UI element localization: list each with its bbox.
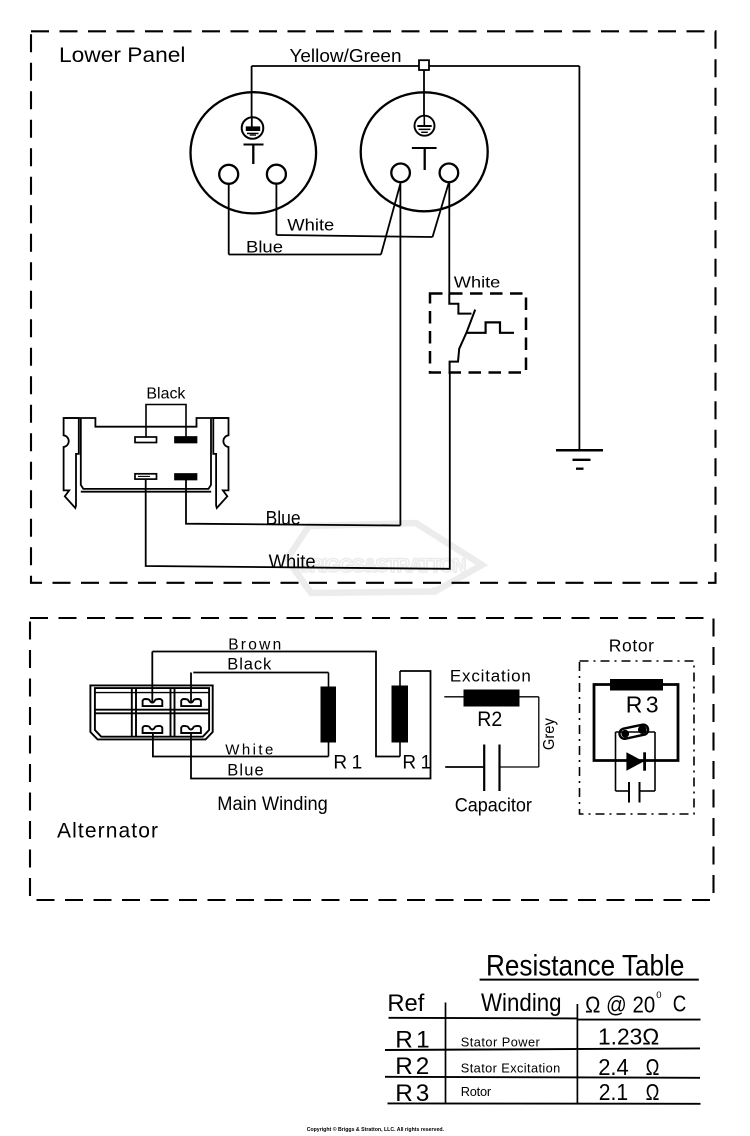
svg-text:White: White (225, 742, 273, 759)
svg-text:White: White (454, 275, 501, 292)
wire Blue: J1 left pin drop (228, 184, 230, 255)
CN1 pin 2 (top-right slot) (175, 437, 197, 443)
svg-text:Black: Black (146, 386, 186, 403)
svg-text:1.23Ω: 1.23Ω (598, 1023, 659, 1049)
J1 ground pin (242, 117, 264, 139)
breaker S1 top lead (449, 294, 471, 314)
connector CN2 (alternator 6-cavity) body (90, 685, 212, 739)
wire Blue: long drop from J2 left pin (399, 182, 401, 526)
J1 polarity key mark (244, 145, 264, 165)
svg-text:Stator Power: Stator Power (461, 1034, 541, 1049)
wire White: CN2 terminal C to R1 (153, 733, 329, 757)
rectifier module box (616, 732, 656, 791)
svg-text:Main Winding: Main Winding (217, 794, 327, 815)
wire Brown: CN2 terminal A riser (151, 652, 153, 702)
table bottom rule (388, 1102, 701, 1104)
J1 line pin (left) (219, 165, 238, 184)
CN2 terminal B (row1 col3) (181, 699, 201, 706)
wire Blue: diagonal to J2 left pin (381, 184, 400, 255)
svg-text:Copyright © Briggs & Stratton,: Copyright © Briggs & Stratton, LLC. All … (307, 1126, 445, 1133)
svg-text:2.1: 2.1 (599, 1079, 628, 1105)
svg-text:R3: R3 (395, 1080, 429, 1107)
svg-text:R2: R2 (477, 707, 502, 731)
varistor on module top edge (619, 724, 649, 740)
junction terminal square on Yellow/Green bus (419, 60, 429, 70)
svg-text:Grey: Grey (541, 718, 558, 750)
wire White: breaker to panel connector (146, 372, 450, 568)
title underline (480, 979, 699, 981)
svg-text:R1: R1 (333, 753, 362, 774)
CN2 terminal C (row2 col2) (143, 726, 163, 733)
receptacle outlet J2 (right) body (361, 92, 488, 211)
svg-text:Rotor: Rotor (609, 636, 654, 656)
value 2.1 ohm (599, 1079, 660, 1105)
svg-text:Winding: Winding (481, 989, 562, 1017)
wire White: J1 right pin drop (275, 184, 277, 235)
svg-text:Blue: Blue (227, 761, 263, 779)
CN1 pin 4 (bottom-right slot) (175, 474, 197, 480)
svg-text:Resistance Table: Resistance Table (486, 950, 684, 983)
wire Brown: top run (152, 652, 400, 757)
R1 bottom lead (328, 743, 330, 757)
receptacle outlet J1 (left) body (191, 92, 317, 213)
J2 line pin (left) (391, 164, 410, 183)
wire White: diagonal to J2 right pin (433, 182, 450, 237)
C1 right lead (500, 766, 539, 768)
R2 right lead (520, 696, 539, 698)
wire rotor loop (594, 685, 678, 761)
R2 left lead (444, 696, 463, 698)
breaker S1 fixed contact (466, 322, 514, 332)
chassis ground symbol (556, 450, 603, 468)
svg-text:Lower Panel: Lower Panel (59, 43, 186, 67)
watermark Briggs & Stratton logo (287, 523, 482, 594)
svg-text:Ω @ 20: Ω @ 20 (585, 991, 655, 1017)
alternator enclosure (dashed boundary) (30, 618, 714, 900)
svg-text:Yellow/Green: Yellow/Green (290, 46, 402, 66)
R1 right bottom lead (399, 743, 401, 757)
svg-text:Ω: Ω (646, 1079, 660, 1105)
table column rule 1 (445, 1003, 447, 1103)
wire White: horizontal run (276, 235, 432, 237)
CN2 terminal A (row1 col2) (143, 699, 163, 706)
wire Yellow/Green: drop to J2 ground (423, 70, 425, 116)
connector CN1 (lower panel 4-pin) body (64, 418, 229, 508)
wire Blue: horizontal run (229, 254, 381, 256)
wire Yellow/Green: J1 ground riser (251, 66, 253, 117)
resistor R1 (stator power winding, left) (321, 687, 337, 743)
svg-text:2.4: 2.4 (598, 1054, 629, 1080)
capacitor C2 plate left (628, 782, 630, 803)
svg-text:Capacitor: Capacitor (455, 796, 533, 817)
table column rule 2 (576, 1004, 578, 1104)
svg-text:R3: R3 (626, 692, 659, 718)
svg-text:White: White (287, 216, 334, 235)
value 2.4 ohm (598, 1054, 659, 1080)
diode D1 (626, 752, 644, 770)
svg-text:Excitation: Excitation (450, 667, 531, 686)
wire Grey: R2 to capacitor (538, 697, 540, 767)
svg-text:Stator Excitation: Stator Excitation (461, 1061, 561, 1076)
svg-text:R1: R1 (395, 1027, 429, 1054)
svg-text:Rotor: Rotor (461, 1084, 492, 1099)
R1 right top lead (399, 671, 401, 686)
lower panel enclosure (dashed boundary) (31, 31, 716, 583)
circuit breaker S1 enclosure (dashed) (430, 294, 526, 373)
wire White: J2 right pin to breaker (448, 182, 450, 294)
svg-text:Black: Black (227, 655, 272, 673)
wire Black: run to R1 (193, 672, 328, 674)
row rule under R1 (385, 1048, 700, 1050)
svg-text:Blue: Blue (266, 509, 301, 530)
J2 ground pin (415, 116, 435, 136)
CN1 pin 3 (bottom-left slot) (135, 474, 157, 479)
rotor enclosure (dash-dot boundary) (580, 661, 695, 814)
resistor R1 (stator power winding, right) (392, 686, 409, 743)
CN2 terminal D (row2 col3) (181, 726, 201, 733)
svg-text:C: C (673, 991, 687, 1017)
capacitor C1 plate left (483, 745, 485, 792)
svg-text:Alternator: Alternator (57, 820, 158, 843)
resistor R3 (rotor winding) (610, 679, 663, 691)
row rule under R2 (385, 1077, 700, 1078)
C1 left lead (445, 766, 484, 768)
breaker S1 lever (450, 310, 476, 373)
J2 neutral pin (right) (440, 164, 459, 183)
J2 polarity key mark (412, 148, 437, 170)
svg-text:Ω: Ω (646, 1054, 660, 1080)
J1 neutral pin (right) (267, 165, 286, 184)
wire Blue: run to panel connector (186, 479, 400, 526)
wire Black: CN2 terminal B riser (190, 673, 192, 702)
svg-text:Ref: Ref (387, 990, 424, 1017)
wire Blue: CN2 terminal D to R1 loop (191, 671, 431, 779)
header rule right (577, 1019, 700, 1021)
R1 top lead (328, 673, 330, 687)
wire Yellow/Green: top bus (252, 65, 580, 67)
wire Yellow/Green: drop to chassis ground (578, 66, 580, 450)
svg-text:R2: R2 (395, 1053, 429, 1080)
svg-text:0: 0 (656, 990, 661, 1001)
column header ohms at 20 C (585, 990, 686, 1017)
CN1 pin 1 (top-left slot) (135, 437, 157, 443)
svg-text:White: White (269, 552, 316, 573)
wire Black: label bracket to connector pins (146, 405, 186, 438)
header rule (389, 1017, 578, 1020)
capacitor C2 plate right (639, 782, 641, 803)
svg-text:BRIGGS&STRATTON: BRIGGS&STRATTON (298, 556, 467, 577)
capacitor C1 plate right (498, 745, 500, 792)
resistor R2 (stator excitation winding) (464, 690, 520, 707)
svg-text:R1: R1 (402, 753, 431, 774)
